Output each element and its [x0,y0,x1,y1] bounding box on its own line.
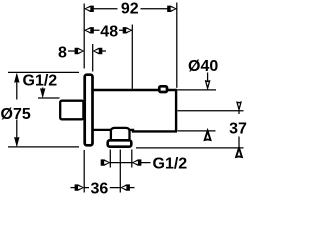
dim 37 down arrow [237,102,242,111]
dim 92 left arrow [84,6,94,12]
svg-text:37: 37 [229,121,247,138]
ext line body top right y90 [178,89,217,91]
dim 36 line seg [84,187,120,189]
ext line axis y110.8 right [178,110,244,112]
svg-text:G1/2: G1/2 [23,73,58,90]
outlet nut [108,140,132,146]
body top edge [93,89,177,91]
d40 leader down arrow [205,80,210,89]
dim d75 up arrow [14,73,19,82]
svg-text:Ø40: Ø40 [188,58,218,75]
G1/2 bottom right arrow [132,159,142,165]
svg-text:Ø75: Ø75 [1,106,31,123]
dim 37 up arrow [236,148,242,157]
extension line x132.3 (48) [131,25,133,89]
ext line wall x84 bottom [83,150,85,193]
d40 leader line [207,73,209,82]
dim 36 left arrow [75,184,85,190]
svg-text:92: 92 [121,1,139,18]
spout neck dome [111,128,130,139]
extension line x176.4 (92 right) [176,3,178,88]
extension line flange front x92.7 [92,44,94,72]
dim 92 right arrow [167,6,177,12]
wall plate flange (side view, d75 escutcheon) [85,75,93,146]
ext line body bottom right y130.9 [178,130,216,132]
outlet centerline x120.3 [119,150,121,193]
body bottom left [92,129,112,131]
dim 8 left arrow (outside, pointing right) [75,48,85,54]
dim 8 right tail [101,50,107,52]
extension line wall face x84 top [83,4,85,69]
dim 8 right arrow (outside, pointing left) [93,48,103,54]
G1/2 top leader line [42,88,44,91]
svg-text:36: 36 [91,181,109,196]
body bottom right with step [129,130,177,132]
dim d75 down arrow [14,137,19,146]
dim 48 left arrow [84,27,94,33]
G1/2 bottom dim line [102,162,151,164]
dim 92 line [84,8,177,10]
dim d75 vertical line [16,75,18,146]
ext line flange top y73 [8,71,79,73]
dim 48 line [84,29,132,31]
G1/2 top leader arrow (down) [40,89,45,98]
body right edge [175,89,177,131]
G1/2 bottom left arrow [101,159,111,165]
dim 36 left tail [71,187,78,189]
G1/2 top extension stub [38,97,60,99]
ext line flange bottom y147 [8,146,79,148]
inlet stub G1/2 male thread [60,101,83,120]
dim 37 stub lower [238,137,240,148]
svg-text:48: 48 [100,23,118,40]
outlet thread ext line left x110.3 [109,150,111,168]
svg-text:G1/2: G1/2 [153,156,188,173]
dim 37 stub upper [238,111,240,114]
knob on top [159,86,167,92]
svg-text:8: 8 [58,44,67,61]
dim 8 line left tail [68,50,77,52]
dim 36 right tail [128,187,134,189]
ext line bottom right y147.6 [136,147,244,149]
dim 48 right arrow [123,27,133,33]
dim 36 right arrow [120,184,130,190]
d40 bottom up arrow [205,131,211,140]
outlet thread ext line right x131.8 [131,150,133,168]
